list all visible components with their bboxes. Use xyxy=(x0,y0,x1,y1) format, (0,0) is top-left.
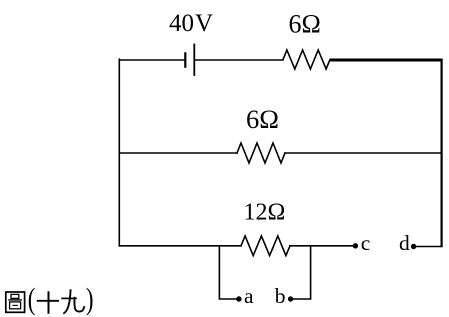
svg-text:12Ω: 12Ω xyxy=(244,200,286,226)
svg-text:6Ω: 6Ω xyxy=(246,104,279,134)
svg-text:d: d xyxy=(399,231,410,255)
svg-text:40: 40 xyxy=(169,10,194,37)
svg-text:V: V xyxy=(195,10,213,37)
svg-text:c: c xyxy=(361,231,371,255)
svg-text:6Ω: 6Ω xyxy=(289,10,321,39)
svg-text:(: ( xyxy=(28,282,36,316)
svg-text:a: a xyxy=(244,284,254,308)
svg-text:): ) xyxy=(86,282,94,316)
svg-text:b: b xyxy=(275,284,286,308)
